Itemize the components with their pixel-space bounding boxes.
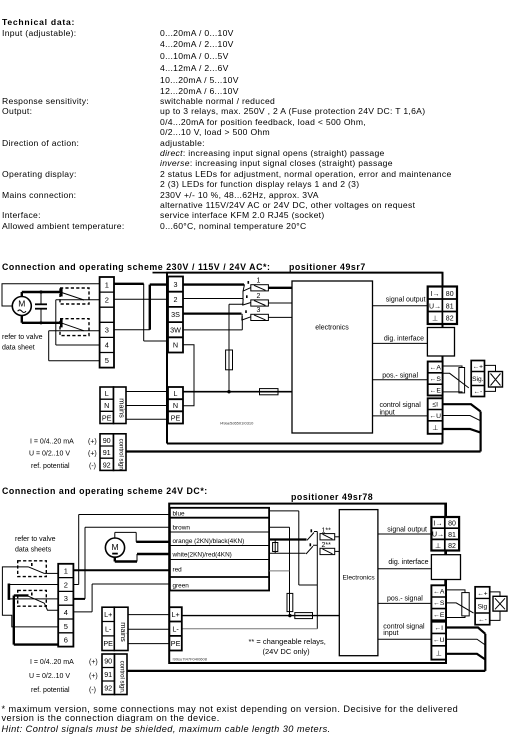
- wire mains PE: [126, 418, 168, 420]
- wire mains L plus: [128, 614, 169, 616]
- wire input U to cable: [443, 416, 481, 421]
- svg-text:2**: 2**: [322, 542, 332, 549]
- Sig connector 2: [475, 587, 490, 625]
- relay output 1: [251, 277, 292, 291]
- wire terminal1 to motor: [2, 284, 100, 306]
- svg-text:blue: blue: [173, 510, 186, 517]
- svg-text:dig. interface: dig. interface: [388, 559, 428, 566]
- svg-text:(+): (+): [89, 659, 98, 666]
- svg-text:81: 81: [448, 532, 456, 539]
- dig interface box 2: [431, 551, 460, 586]
- svg-text:I49ae5d6501I0310: I49ae5d6501I0310: [220, 421, 254, 426]
- svg-text:1: 1: [257, 277, 261, 284]
- left control block 2: [102, 654, 127, 695]
- svg-text:ref. potential: ref. potential: [31, 463, 70, 470]
- wire 2 to relay contact: [183, 298, 243, 300]
- svg-text:(24V DC only): (24V DC only): [263, 647, 311, 656]
- svg-text:3S: 3S: [171, 310, 180, 319]
- wire E to potentiometer 2: [446, 616, 465, 618]
- wire terminal3 to brown: [73, 527, 169, 599]
- limit switch S3 dashed box: [18, 561, 47, 577]
- junction dot motor top: [39, 290, 42, 293]
- Electronics block: [339, 510, 378, 656]
- wire terminal1 to red: [73, 569, 169, 571]
- svg-text:electronics: electronics: [315, 325, 349, 332]
- svg-text:signal output: signal output: [387, 527, 427, 534]
- junction dot motor bottom: [39, 321, 42, 324]
- control signal input label 2: [383, 624, 425, 637]
- wire input gnd to cable 2: [446, 654, 485, 660]
- wire red to fuse riser: [269, 570, 289, 572]
- svg-text:2: 2: [105, 295, 109, 304]
- svg-text:2: 2: [174, 295, 178, 304]
- svg-text:control sign.: control sign.: [118, 439, 125, 472]
- wire mains L: [126, 391, 168, 393]
- svg-text:white(2KN)/red(4KN): white(2KN)/red(4KN): [172, 551, 232, 558]
- relay contact K4: [307, 529, 317, 540]
- wire top to signal block: [441, 273, 443, 287]
- svg-text:3: 3: [174, 280, 178, 289]
- electronics block: [292, 281, 373, 433]
- potentiometer R2: [462, 593, 469, 616]
- control input terminals I U gnd: [428, 398, 443, 434]
- svg-text:brown: brown: [173, 524, 191, 531]
- svg-text:ref. potential: ref. potential: [31, 687, 70, 694]
- control cable bottom wire: [126, 450, 481, 452]
- svg-text:2: 2: [64, 580, 68, 589]
- svg-text:I = 0/4..20 mA: I = 0/4..20 mA: [30, 659, 74, 666]
- wire Sig plus to X: [485, 365, 496, 371]
- svg-text:91: 91: [104, 670, 112, 679]
- svg-text:5: 5: [105, 356, 109, 365]
- svg-text:←I: ←I: [434, 625, 443, 632]
- svg-text:(-): (-): [89, 463, 96, 470]
- svg-text:PE: PE: [171, 639, 181, 648]
- svg-text:⊥: ⊥: [436, 651, 442, 658]
- device mains block L N PE: [168, 387, 183, 424]
- junction dot L plus: [288, 614, 291, 617]
- left mains block L N PE: [100, 387, 127, 424]
- wire N bus: [183, 345, 194, 406]
- wire electronics to U input: [373, 415, 428, 417]
- svg-text:90: 90: [103, 436, 111, 445]
- svg-text:M: M: [111, 542, 118, 552]
- wiper wire S: [443, 373, 469, 388]
- svg-text:6: 6: [64, 636, 68, 645]
- signal output label: [386, 297, 426, 304]
- svg-text:L+: L+: [104, 610, 112, 619]
- svg-text:←U: ←U: [433, 637, 445, 644]
- left control block 90 91 92: [100, 434, 126, 472]
- wire input gnd to cable: [443, 429, 481, 433]
- wire white to contact: [269, 552, 305, 554]
- wire mains PE 2: [128, 643, 169, 645]
- svg-text:←E: ←E: [433, 612, 445, 619]
- wire electronics to S 2: [378, 602, 432, 604]
- wire electronics to 81: [373, 305, 428, 307]
- svg-text:←+: ←+: [473, 364, 484, 371]
- wire 3S to relay contact: [183, 313, 242, 315]
- svg-text:82: 82: [448, 543, 456, 550]
- device mains block 2: [169, 607, 181, 650]
- suppressor fuse F3: [273, 540, 278, 554]
- svg-text:(+): (+): [88, 438, 97, 445]
- wire mains L minus: [128, 628, 169, 630]
- svg-text:4: 4: [105, 341, 109, 350]
- svg-text:dig. interface: dig. interface: [384, 335, 424, 342]
- svg-text:3: 3: [105, 326, 109, 335]
- svg-text:refer to valve: refer to valve: [15, 536, 56, 543]
- wire terminal4 to green: [73, 584, 169, 612]
- signal output label 2: [387, 527, 427, 534]
- wire terminal3 to device 3: [114, 285, 168, 330]
- control cable bottom wire 2: [127, 670, 485, 672]
- external potentiometer X: [489, 372, 503, 388]
- wire L line: [183, 391, 292, 393]
- HEADER DIAGRAM 2: [2, 487, 208, 496]
- wire motor to white: [115, 554, 170, 562]
- svg-text:91: 91: [103, 448, 111, 457]
- control cable down 2: [484, 634, 486, 671]
- wire Lminus line: [182, 628, 317, 630]
- control input labels 2: [29, 659, 98, 694]
- svg-text:data sheets: data sheets: [15, 547, 52, 554]
- wire electronics to S: [373, 379, 428, 381]
- motor M2: [105, 538, 124, 557]
- wire S3 feed from terminal 5: [2, 567, 58, 627]
- refer to valve data sheets label: [15, 536, 56, 554]
- svg-text:←-: ←-: [473, 389, 482, 396]
- svg-text:L: L: [174, 389, 178, 398]
- svg-text:PE: PE: [171, 414, 181, 423]
- motor M1: [12, 297, 31, 316]
- fuse F4 vertical riser: [287, 593, 293, 611]
- potentiometer R1: [459, 368, 465, 393]
- wire L plus line: [182, 615, 339, 617]
- left terminal strip X1 (1,2,3,4,5): [100, 277, 114, 368]
- wire S4 feed from terminal 6: [14, 596, 58, 645]
- svg-text:signal output: signal output: [386, 297, 426, 304]
- svg-text:I = 0/4..20 mA: I = 0/4..20 mA: [30, 438, 74, 445]
- fuse F2 vertical riser: [226, 299, 243, 392]
- pos signal label: [382, 373, 418, 380]
- svg-text:U = 0/2..10 V: U = 0/2..10 V: [29, 451, 70, 458]
- svg-text:⊥: ⊥: [432, 425, 438, 432]
- svg-text:PE: PE: [102, 414, 112, 423]
- pos signal terminals 2: [431, 585, 446, 620]
- svg-text:M: M: [18, 299, 25, 309]
- wire A to potentiometer 2: [446, 590, 465, 593]
- svg-text:** = changeable relays,: ** = changeable relays,: [249, 637, 326, 646]
- svg-text:(+): (+): [89, 673, 98, 680]
- svg-text:Sig.: Sig.: [472, 376, 484, 383]
- left mains block 2: [102, 607, 128, 650]
- svg-text:I→: I→: [431, 291, 440, 298]
- wire input I to cable 2: [446, 628, 485, 634]
- svg-text:Electronics: Electronics: [342, 575, 375, 582]
- control input terminals 2: [431, 622, 446, 660]
- svg-text:control sign.: control sign.: [119, 661, 126, 694]
- svg-text:L-: L-: [172, 624, 179, 633]
- relay output 2: [251, 293, 292, 306]
- drawing number d2: [173, 657, 208, 662]
- svg-text:92: 92: [103, 460, 111, 469]
- svg-text:I99su7t47F04I0608: I99su7t47F04I0608: [173, 657, 208, 662]
- wiper wire S 2: [446, 603, 474, 613]
- wire motor top: [22, 292, 61, 297]
- svg-text:L+: L+: [171, 610, 179, 619]
- BOTTOM TEXT: [2, 705, 459, 714]
- wire mains N: [126, 405, 168, 407]
- svg-text:←S: ←S: [433, 600, 445, 607]
- pos signal label 2: [387, 596, 423, 603]
- svg-text:3: 3: [64, 594, 68, 603]
- svg-text:input: input: [380, 409, 395, 416]
- wire motor to orange: [115, 532, 170, 541]
- svg-text:3W: 3W: [170, 325, 181, 334]
- svg-text:mains: mains: [118, 398, 127, 418]
- dig interface label 2: [388, 559, 428, 566]
- motor cable color box: [170, 508, 269, 591]
- limit switch S1 dashed box: [60, 288, 89, 304]
- wire S3 output to terminal 1: [44, 572, 58, 574]
- svg-text:U = 0/2..10 V: U = 0/2..10 V: [29, 673, 70, 680]
- svg-text:←-: ←-: [478, 616, 487, 623]
- limit switch S2 dashed box: [60, 318, 89, 335]
- svg-text:(-): (-): [89, 687, 96, 694]
- svg-text:refer to valve: refer to valve: [2, 334, 43, 341]
- svg-text:U→: U→: [429, 304, 441, 311]
- junction dot L line: [227, 390, 230, 393]
- wire S1 output to terminals 2 and 4: [56, 300, 100, 345]
- svg-text:control signal: control signal: [380, 402, 422, 409]
- changeable relays note: [249, 637, 326, 656]
- wire terminal2 to blue: [73, 515, 169, 585]
- header underline 230V/115V/24V AC: [153, 272, 168, 274]
- wire blue to bus: [269, 511, 317, 585]
- svg-text:pos.- signal: pos.- signal: [387, 596, 423, 603]
- svg-text:N: N: [173, 341, 178, 350]
- svg-text:90: 90: [104, 657, 112, 666]
- positioner 49sr7 device box U1: [167, 272, 443, 444]
- svg-text:1: 1: [105, 280, 109, 289]
- svg-text:80: 80: [446, 291, 454, 298]
- jumper terminals 2-3: [9, 584, 58, 600]
- fuse F5 horizontal: [295, 613, 313, 619]
- left terminal strip X2 (1-6): [58, 564, 73, 647]
- drawing number d1: [220, 421, 254, 426]
- wire orange to contact: [269, 538, 306, 540]
- pos signal terminals A S E: [428, 362, 443, 396]
- svg-text:Sig: Sig: [478, 603, 488, 610]
- svg-text:L-: L-: [105, 624, 112, 633]
- control input labels: [29, 438, 97, 469]
- svg-text:N: N: [173, 401, 178, 410]
- svg-text:(+): (+): [88, 451, 97, 458]
- wire 3 to relay contact: [183, 283, 244, 285]
- wire S2 output to terminals 3 and 5: [49, 331, 100, 361]
- svg-text:data sheet: data sheet: [2, 345, 35, 352]
- svg-text:⊥: ⊥: [435, 543, 441, 550]
- wire Sig minus to X: [485, 387, 496, 391]
- external potentiometer X 2: [493, 596, 507, 611]
- svg-text:input: input: [383, 630, 398, 637]
- signal output terminals 2: [431, 517, 459, 551]
- svg-text:2: 2: [257, 293, 261, 300]
- svg-text:red: red: [173, 566, 183, 573]
- dig interface label: [384, 335, 424, 342]
- wire A to potentiometer: [443, 366, 462, 368]
- svg-text:N: N: [104, 401, 109, 410]
- capacitor C1: [35, 292, 47, 323]
- svg-text:≤I: ≤I: [432, 401, 438, 408]
- device terminal strip (3,2,3S,3W,N): [168, 277, 183, 353]
- dig interface box: [427, 324, 454, 362]
- svg-text:mains: mains: [119, 622, 128, 642]
- svg-text:←A: ←A: [430, 365, 442, 372]
- header underline 24V DC: [445, 503, 447, 505]
- relay contact K2: [243, 295, 251, 305]
- contact bus down: [316, 532, 318, 629]
- Sig connector: [471, 361, 484, 397]
- refer to valve data sheet label: [2, 334, 43, 352]
- svg-text:U→: U→: [432, 532, 444, 539]
- wire electronics to 81 2: [378, 533, 432, 535]
- TOP TEXT BLOCK: [2, 18, 75, 27]
- wire 3W to relay contact: [183, 316, 242, 330]
- relay output 2**: [320, 542, 339, 555]
- wire Sig plus to X 2: [490, 592, 500, 596]
- wire electronics to dig interface 2: [378, 568, 432, 570]
- signal output terminals 80 81 82: [428, 287, 457, 325]
- wire input I to cable: [443, 404, 481, 411]
- svg-text:←E: ←E: [430, 387, 442, 394]
- limit switch S4 dashed box: [18, 590, 47, 606]
- svg-text:81: 81: [446, 304, 454, 311]
- fuse F1 horizontal: [260, 389, 279, 395]
- relay contact K3: [242, 310, 251, 320]
- svg-text:←S: ←S: [430, 376, 442, 383]
- positioner 49sr78 device box U2: [169, 504, 446, 663]
- svg-text:orange (2KN)/black(4KN): orange (2KN)/black(4KN): [173, 538, 245, 545]
- relay contact K1: [243, 281, 251, 299]
- wire brown to fuse riser: [269, 527, 289, 615]
- HEADER DIAGRAM 1: [2, 263, 270, 272]
- svg-text:←A: ←A: [433, 589, 445, 596]
- svg-text:92: 92: [104, 684, 112, 693]
- svg-text:green: green: [173, 582, 190, 589]
- wire terminal2 to device 2: [114, 298, 168, 300]
- svg-text:80: 80: [448, 521, 456, 528]
- svg-text:PE: PE: [103, 639, 113, 648]
- wire electronics to U input 2: [378, 638, 432, 640]
- svg-text:⊥: ⊥: [432, 316, 438, 323]
- wire S4 output to terminal 4: [44, 603, 58, 610]
- relay output 3: [251, 307, 292, 320]
- control cable down: [480, 412, 482, 452]
- svg-text:3: 3: [257, 307, 261, 314]
- relay output 1**: [320, 527, 339, 540]
- svg-text:pos.- signal: pos.- signal: [382, 373, 418, 380]
- wire motor bottom: [22, 316, 61, 323]
- svg-text:L: L: [105, 389, 109, 398]
- wire E to potentiometer: [443, 392, 462, 393]
- wire terminal1 to N: [114, 284, 168, 341]
- wire top to signal block 2: [444, 504, 446, 517]
- svg-text:←+: ←+: [477, 590, 488, 597]
- wire electronics to dig interface: [373, 342, 428, 344]
- svg-text:1: 1: [64, 567, 68, 576]
- svg-text:4: 4: [64, 608, 68, 617]
- svg-text:5: 5: [64, 622, 68, 631]
- svg-text:1**: 1**: [322, 527, 332, 534]
- wire Sig minus to X 2: [490, 611, 500, 620]
- svg-text:82: 82: [446, 316, 454, 323]
- relay contact K5: [306, 543, 317, 554]
- svg-text:←U: ←U: [429, 413, 441, 420]
- wire input U to cable 2: [446, 639, 485, 645]
- svg-text:I→: I→: [434, 521, 443, 528]
- control signal input label: [380, 402, 422, 416]
